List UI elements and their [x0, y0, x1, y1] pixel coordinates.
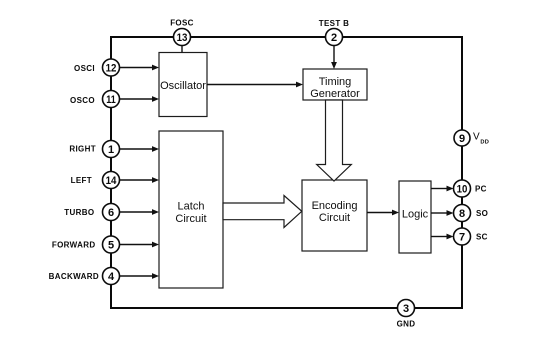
pin 11 OSCO: [103, 91, 120, 108]
svg-text:2: 2: [331, 32, 337, 44]
pin 9 VDD: [454, 130, 470, 146]
svg-text:Logic: Logic: [402, 209, 429, 221]
block Latch Circuit: [159, 131, 223, 288]
wire OSCI to Oscillator: [120, 65, 160, 71]
hollow arrow Latch to Encoding: [223, 196, 302, 228]
svg-text:Latch: Latch: [178, 201, 205, 213]
wire BACKWARD to Latch: [120, 273, 160, 279]
pin 7 SC: [454, 228, 471, 245]
svg-text:4: 4: [108, 271, 115, 283]
wire Logic to pin7: [431, 234, 454, 240]
svg-text:TEST B: TEST B: [319, 19, 350, 28]
wire Logic to pin8: [431, 210, 454, 216]
block Encoding Circuit: [302, 180, 367, 251]
wire pin2 to Timing Generator: [331, 46, 337, 70]
wire Oscillator to Timing Generator: [207, 82, 303, 88]
block Oscillator: [159, 53, 207, 117]
svg-text:LEFT: LEFT: [71, 176, 92, 185]
wire Encoding to Logic: [367, 210, 399, 216]
pin 6 TURBO: [103, 204, 120, 221]
svg-text:8: 8: [459, 208, 465, 220]
label VDD: [473, 132, 489, 146]
svg-text:9: 9: [459, 133, 465, 145]
svg-text:Circuit: Circuit: [175, 213, 206, 225]
pin 4 BACKWARD: [103, 268, 120, 285]
wire RIGHT to Latch: [120, 146, 160, 152]
svg-text:OSCO: OSCO: [70, 96, 95, 105]
wire Logic to pin10: [431, 186, 454, 192]
svg-text:Generator: Generator: [310, 88, 360, 100]
svg-text:Circuit: Circuit: [319, 212, 350, 224]
pin 3 GND: [398, 300, 415, 317]
hollow arrow Timing to Encoding: [317, 100, 352, 181]
svg-text:14: 14: [106, 175, 118, 187]
svg-text:13: 13: [177, 32, 188, 44]
svg-text:BACKWARD: BACKWARD: [49, 272, 99, 281]
pin 10 PC: [454, 180, 471, 197]
svg-text:10: 10: [457, 184, 468, 196]
block Timing Generator: [303, 69, 367, 100]
wire pin13 to Oscillator: [181, 46, 183, 53]
svg-text:SO: SO: [476, 209, 488, 218]
svg-text:FORWARD: FORWARD: [52, 241, 96, 250]
pin 1 RIGHT: [103, 141, 120, 158]
pin 2 TEST B: [326, 29, 343, 46]
svg-text:Encoding: Encoding: [312, 200, 358, 212]
svg-text:7: 7: [459, 232, 465, 244]
svg-text:11: 11: [106, 94, 116, 106]
svg-text:DD: DD: [480, 140, 489, 146]
wire FORWARD to Latch: [120, 242, 160, 248]
pin 14 LEFT: [103, 172, 120, 189]
pin 5 FORWARD: [103, 236, 120, 253]
pin 8 SO: [454, 205, 471, 222]
svg-text:GND: GND: [397, 320, 416, 329]
svg-text:RIGHT: RIGHT: [69, 145, 96, 154]
svg-text:5: 5: [108, 240, 114, 252]
wire OSCO to Oscillator: [120, 96, 160, 102]
block Logic: [399, 181, 431, 253]
wire LEFT to Latch: [120, 177, 160, 183]
svg-text:FOSC: FOSC: [170, 18, 194, 27]
svg-text:SC: SC: [476, 233, 488, 242]
svg-text:Timing: Timing: [319, 76, 352, 88]
svg-text:Oscillator: Oscillator: [160, 80, 206, 92]
svg-text:OSCI: OSCI: [74, 64, 95, 73]
svg-text:V: V: [473, 132, 480, 143]
svg-text:6: 6: [108, 207, 114, 219]
svg-text:TURBO: TURBO: [64, 208, 94, 217]
pin 13 FOSC: [174, 29, 191, 46]
svg-text:PC: PC: [475, 185, 487, 194]
pin 12 OSCI: [103, 59, 120, 76]
svg-text:3: 3: [403, 303, 409, 315]
svg-text:1: 1: [108, 144, 114, 156]
wire TURBO to Latch: [120, 209, 160, 215]
chip boundary: [111, 37, 462, 308]
svg-text:12: 12: [106, 63, 117, 75]
